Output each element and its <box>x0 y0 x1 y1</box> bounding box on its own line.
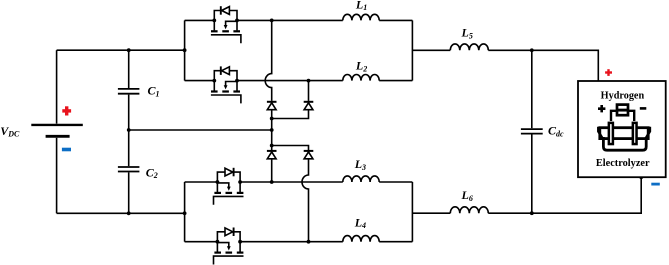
svg-text:L3: L3 <box>354 157 366 172</box>
icon tank body <box>603 137 646 150</box>
svg-text:Hydrogen: Hydrogen <box>601 89 645 101</box>
wire row F from S4 to L4 <box>240 241 343 243</box>
capacitor C1 upper lead <box>128 50 130 88</box>
capacitor C2 plates <box>118 167 139 172</box>
wire diode column left with hop over row C <box>265 20 272 101</box>
diode D2 <box>304 102 314 110</box>
icon minus sign <box>640 107 647 110</box>
wire row A from bus to S1 <box>185 19 215 21</box>
wire node J1 to node mid <box>271 119 273 131</box>
wire top rail left <box>57 49 185 51</box>
diode D1 <box>267 102 277 110</box>
inductor L4 coil <box>343 236 379 242</box>
svg-text:C1: C1 <box>148 84 160 99</box>
capacitor C2 lower lead <box>128 172 130 213</box>
battery minus sign <box>62 148 71 152</box>
wire left bus upper bridge <box>184 20 186 80</box>
node dot row F / D4 <box>307 240 311 244</box>
wire L1 to join column <box>379 19 412 21</box>
node dot Cdc bottom <box>530 211 534 215</box>
wire row A from S1 to L1 <box>237 19 343 21</box>
wire row D from bus to S3 <box>185 181 218 183</box>
battery top lead <box>56 50 58 123</box>
node dot J1 <box>270 117 274 121</box>
wire stub J1 horizontal <box>272 110 309 118</box>
output minus sign <box>651 183 660 186</box>
icon rim bar <box>600 128 648 139</box>
wire L4 to join column <box>379 241 412 243</box>
wire L6 to box minus terminal <box>488 177 641 213</box>
node dot J2 <box>270 144 274 148</box>
wire L3 to join column <box>379 181 412 183</box>
diode D3 <box>267 151 277 159</box>
capacitor C2 upper lead <box>128 130 130 166</box>
inductor L5 coil <box>450 44 488 50</box>
node dot row D / D3 <box>270 180 274 184</box>
wire D1 to node J1 <box>271 110 273 118</box>
svg-text:L4: L4 <box>354 215 366 230</box>
MOSFET S1 <box>211 6 241 43</box>
wire bottom rail left <box>57 212 185 214</box>
wire left bus lower bridge <box>184 182 186 242</box>
wire midpoint line <box>129 129 272 131</box>
node dot bus top input <box>183 48 187 52</box>
inductor L2 coil <box>343 75 379 81</box>
wire D3 to row D <box>271 159 273 182</box>
wire row C to D2 <box>308 81 310 101</box>
wire row C from S2 to L2 <box>237 80 343 82</box>
battery VDC long plate <box>31 124 83 126</box>
icon right arm <box>629 111 634 121</box>
node dot midline-D <box>270 128 274 132</box>
node dot row C / D2 <box>307 79 311 83</box>
svg-text:C2: C2 <box>146 165 158 180</box>
capacitor Cdc lower lead <box>531 135 533 214</box>
battery VDC short plate <box>46 135 70 138</box>
inductor L6 coil <box>450 207 488 213</box>
battery plus sign <box>62 106 71 115</box>
capacitor Cdc upper lead <box>531 50 533 128</box>
svg-text:L6: L6 <box>461 188 473 203</box>
node dot rail-C2 bottom <box>127 211 131 215</box>
capacitor C1 plates <box>118 89 139 94</box>
wire join column lower <box>411 182 413 242</box>
node dot rail-C1 top <box>127 48 131 52</box>
svg-text:L2: L2 <box>355 59 367 74</box>
svg-text:VDC: VDC <box>0 124 20 139</box>
wire join column upper <box>411 20 413 80</box>
icon left wing <box>598 127 603 140</box>
inductor L3 coil <box>343 176 379 182</box>
wire node J2 to D3 <box>271 146 273 151</box>
node dot Cdc top <box>530 48 534 52</box>
wire row F from bus to S4 <box>185 241 218 243</box>
MOSFET S2 <box>211 66 241 103</box>
MOSFET S4 <box>214 228 244 265</box>
wire join to L6 <box>412 212 450 214</box>
icon battery stripe <box>617 109 629 112</box>
icon left arm <box>611 111 616 121</box>
svg-text:L5: L5 <box>461 26 473 41</box>
node dot midline-C <box>127 128 131 132</box>
node dot bus bottom input <box>183 211 187 215</box>
wire L5 to box plus terminal <box>488 50 598 81</box>
icon right electrode <box>633 123 637 144</box>
wire L2 to join column <box>379 80 412 82</box>
electrolyzer box <box>578 81 666 177</box>
wire node mid to node J2 <box>271 130 273 146</box>
svg-text:Electrolyzer: Electrolyzer <box>596 157 650 169</box>
capacitor C1 lower lead <box>128 95 130 130</box>
wire row C from bus to S2 <box>185 80 215 82</box>
svg-text:Cdc: Cdc <box>548 124 564 139</box>
icon plus sign <box>598 105 605 112</box>
wire row D from S3 to L3 <box>240 181 343 183</box>
svg-text:L1: L1 <box>355 0 367 12</box>
icon left electrode <box>609 123 613 144</box>
node dot box bottom terminal <box>639 175 643 179</box>
battery bottom lead <box>56 138 58 214</box>
icon right wing <box>645 127 650 140</box>
MOSFET S3 <box>214 168 244 205</box>
diode D4 <box>304 151 314 159</box>
output plus sign <box>605 69 612 76</box>
wire D4 down with hop over row D <box>302 159 309 242</box>
icon battery outer <box>617 105 628 116</box>
wire join to L5 <box>412 49 450 51</box>
capacitor Cdc plates <box>521 129 543 134</box>
wire stub J2 horizontal <box>272 146 309 151</box>
inductor L1 coil <box>343 14 379 20</box>
node dot row A / D1 <box>270 19 274 23</box>
